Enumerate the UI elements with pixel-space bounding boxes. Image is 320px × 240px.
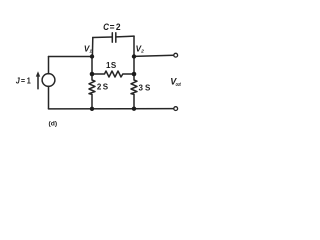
- wire capacitor top left segment: [93, 36, 112, 39]
- svg-text:C: C: [103, 21, 109, 32]
- resistor 2S vertical: [89, 74, 95, 109]
- junction dot left of 1S: [90, 72, 95, 77]
- wire capacitor top right segment: [116, 35, 134, 38]
- node V2 junction dot: [132, 54, 136, 58]
- node V1 junction dot: [90, 54, 94, 58]
- wire left branch lower vertical: [48, 86, 50, 108]
- svg-text:1S: 1S: [106, 61, 117, 70]
- wire V2 to output terminal: [134, 55, 174, 56]
- svg-text:3S: 3S: [139, 83, 152, 92]
- svg-text:=: =: [110, 21, 115, 32]
- svg-text:2: 2: [116, 21, 121, 32]
- label C = 2: [103, 21, 121, 32]
- svg-text:1: 1: [27, 76, 32, 85]
- svg-text:out: out: [176, 82, 181, 88]
- resistor 3S vertical: [131, 74, 137, 109]
- resistor 1S horizontal: [92, 71, 134, 77]
- wire top left (source to V1): [49, 56, 93, 58]
- wire bottom rail: [49, 108, 174, 110]
- label J = 1: [16, 76, 32, 85]
- terminal output top: [174, 53, 178, 57]
- svg-text:V2: V2: [136, 44, 144, 54]
- current source reference arrow: [36, 71, 40, 89]
- wire V1 down to junction: [91, 57, 93, 75]
- capacitor C plates: [112, 33, 116, 42]
- svg-text:V1: V1: [84, 44, 92, 54]
- svg-text:J: J: [16, 76, 21, 85]
- current source J circle: [42, 74, 55, 87]
- wire capacitor riser left: [91, 38, 93, 57]
- wire V2 down to junction: [133, 57, 135, 75]
- wire capacitor riser right: [133, 36, 135, 56]
- junction dot bottom left: [90, 107, 94, 111]
- svg-text:2S: 2S: [97, 82, 109, 91]
- svg-text:(d): (d): [49, 120, 58, 127]
- svg-text:=: =: [21, 76, 26, 85]
- wire left branch upper vertical: [48, 57, 50, 74]
- junction dot bottom right: [132, 107, 136, 111]
- terminal output bottom: [174, 107, 178, 111]
- junction dot right of 1S: [132, 72, 137, 77]
